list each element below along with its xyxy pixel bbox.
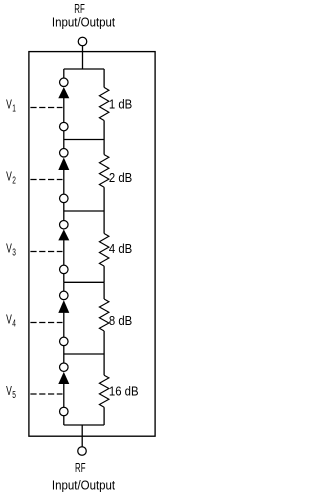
resistor R1 (1 dB) <box>99 87 109 120</box>
node circle: D4 cathode <box>60 291 69 300</box>
resistor R3 bottom lead <box>103 266 105 282</box>
node circle: stage 5 lower <box>60 407 69 416</box>
svg-text:V1: V1 <box>6 98 16 114</box>
diode D5 <box>58 372 69 384</box>
wire: j2 to diode D3 cathode node <box>63 211 65 221</box>
node circle: stage 2 lower <box>60 194 69 203</box>
control line V2 (dashed) <box>30 179 62 181</box>
node circle: stage 1 lower <box>60 122 69 131</box>
control line V3 (dashed) <box>30 251 62 253</box>
svg-text:RF: RF <box>75 462 85 475</box>
RF input/output terminal (top) <box>78 37 87 46</box>
svg-text:8 dB: 8 dB <box>109 313 132 328</box>
svg-text:4 dB: 4 dB <box>109 241 132 256</box>
svg-text:V2: V2 <box>6 170 16 186</box>
svg-text:V4: V4 <box>6 313 16 329</box>
diode D1 <box>58 87 69 98</box>
svg-text:Input/Output: Input/Output <box>52 15 116 30</box>
wire: D1 anode down <box>63 98 65 123</box>
wire: j0 to diode D1 cathode node <box>63 69 65 78</box>
enclosure box <box>29 52 155 437</box>
wire: stage 2 lower node to j2 <box>63 203 65 212</box>
wire: top tee (node at junction j0) <box>64 68 104 70</box>
node circle: D2 cathode <box>60 149 69 158</box>
wire: D3 anode down <box>63 240 65 265</box>
resistor R5 bottom lead <box>103 407 105 425</box>
wire: D2 anode down <box>63 170 65 195</box>
diode D4 <box>58 300 69 313</box>
node circle: D5 cathode <box>60 363 69 372</box>
diode D3 <box>58 229 69 240</box>
resistor R2 bottom lead <box>103 187 105 211</box>
svg-text:2 dB: 2 dB <box>109 170 132 185</box>
wire: stage 4 lower node to j4 <box>63 346 65 355</box>
wire: stage 3 lower node to j3 <box>63 274 65 283</box>
resistor R5 top lead <box>103 354 105 375</box>
resistor R4 (8 dB) <box>99 299 109 331</box>
node circle: stage 3 lower <box>60 265 69 274</box>
wire: stage 1 lower node to j1 <box>63 131 65 140</box>
resistor R3 top lead <box>103 211 105 234</box>
wire: tee at junction j3 <box>64 281 104 283</box>
resistor R1 bottom lead <box>103 121 105 140</box>
wire: tee at junction j4 <box>64 353 104 355</box>
svg-text:Input/Output: Input/Output <box>52 478 116 493</box>
svg-text:16 dB: 16 dB <box>109 384 139 399</box>
resistor R4 bottom lead <box>103 331 105 354</box>
wire: j4 to diode D5 cathode node <box>63 354 65 363</box>
wire: D4 anode down <box>63 313 65 338</box>
svg-text:V5: V5 <box>6 385 16 401</box>
node circle: D1 cathode <box>60 78 69 87</box>
wire: tee at junction j2 <box>64 210 104 212</box>
wire: top terminal to input tee <box>82 46 84 69</box>
node circle: stage 4 lower <box>60 337 69 346</box>
wire: j1 to diode D2 cathode node <box>63 140 65 149</box>
resistor R5 (16 dB) <box>99 375 109 407</box>
wire: j3 to diode D4 cathode node <box>63 282 65 291</box>
node circle: D3 cathode <box>60 220 69 229</box>
resistor R1 top lead <box>103 69 105 87</box>
wire: stage 5 lower node to bottom tee <box>63 416 65 425</box>
svg-text:V3: V3 <box>6 242 16 258</box>
diode D2 <box>58 158 69 171</box>
wire: D5 anode down <box>63 384 65 408</box>
wire: bottom tee (node at junction j5) <box>64 424 104 426</box>
resistor R2 top lead <box>103 140 105 155</box>
control line V5 (dashed) <box>30 393 62 395</box>
resistor R2 (2 dB) <box>99 155 109 188</box>
resistor R3 (4 dB) <box>99 234 109 267</box>
resistor R4 top lead <box>103 282 105 299</box>
control line V4 (dashed) <box>30 322 62 324</box>
control line V1 (dashed) <box>30 107 62 109</box>
wire: tee at junction j1 <box>64 139 104 141</box>
wire: bottom tee to bottom terminal <box>81 425 83 447</box>
RF input/output terminal (bottom) <box>78 447 87 456</box>
svg-text:1 dB: 1 dB <box>109 97 132 112</box>
